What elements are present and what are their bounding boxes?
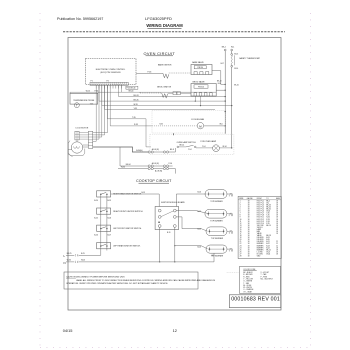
svg-text:Y-35: Y-35 xyxy=(266,213,269,215)
svg-text:12: 12 xyxy=(240,223,242,225)
svg-text:18: 18 xyxy=(276,202,278,204)
wire chart table xyxy=(238,196,281,258)
svg-text:18: 18 xyxy=(248,227,250,229)
right perforation dotted line xyxy=(310,13,312,348)
cooling fan motor xyxy=(197,123,203,129)
svg-text:A-5 B (N): A-5 B (N) xyxy=(155,170,162,173)
svg-text:18: 18 xyxy=(248,231,250,233)
svg-text:SW N.O.: SW N.O. xyxy=(257,227,264,229)
svg-text:B-22: B-22 xyxy=(198,229,202,231)
svg-text:18: 18 xyxy=(276,207,278,209)
wire EOC run y105.6 xyxy=(101,85,103,105)
svg-text:B-22: B-22 xyxy=(266,243,269,245)
svg-text:18: 18 xyxy=(276,213,278,215)
module pin1 mark xyxy=(158,222,159,223)
svg-text:B-24: B-24 xyxy=(94,200,98,202)
svg-text:IGN MOD: IGN MOD xyxy=(257,241,265,243)
wire broil valve pin stub 2 xyxy=(200,96,202,106)
connector row 2 xyxy=(120,147,148,166)
wire module left column to N xyxy=(159,227,161,262)
junction dots on N line xyxy=(159,261,160,262)
svg-text:BROIL VALVE: BROIL VALVE xyxy=(193,80,206,83)
svg-text:18: 18 xyxy=(248,223,250,225)
svg-text:EOC P1-8: EOC P1-8 xyxy=(257,215,264,217)
wire EOC run y92.2 xyxy=(120,85,122,92)
module terminal pair row 1 xyxy=(158,209,161,212)
svg-text:LABEL ALL WIRES PRIOR TO DISCO: LABEL ALL WIRES PRIOR TO DISCONNECTION W… xyxy=(76,279,216,282)
wire EOC pin to lock motor 2 xyxy=(98,85,100,139)
svg-text:28: 28 xyxy=(240,255,242,257)
svg-text:W-35: W-35 xyxy=(134,104,138,106)
svg-text:W-1: W-1 xyxy=(231,47,234,49)
wire module to burner 1 xyxy=(176,194,206,207)
svg-text:BK-34: BK-34 xyxy=(126,164,131,166)
svg-text:B-25: B-25 xyxy=(94,217,98,219)
top burner 3 xyxy=(206,227,227,236)
ignitor switch box 4 xyxy=(97,243,111,249)
svg-text:GY - GRAY: GY - GRAY xyxy=(243,290,252,293)
svg-text:BURNER: BURNER xyxy=(257,243,264,245)
svg-text:18: 18 xyxy=(248,243,250,245)
svg-text:W-6: W-6 xyxy=(220,124,223,126)
svg-text:20: 20 xyxy=(240,239,242,241)
svg-text:P-34: P-34 xyxy=(169,163,173,165)
module terminal pair row 2 xyxy=(158,216,161,219)
caution note box xyxy=(64,272,198,289)
svg-text:18: 18 xyxy=(248,255,250,257)
wire EOC run y109.6 xyxy=(104,85,106,109)
svg-text:BK-16: BK-16 xyxy=(234,85,239,87)
svg-text:B-21: B-21 xyxy=(198,211,202,213)
svg-text:18: 18 xyxy=(248,249,250,251)
cooktop switch right bus wire xyxy=(106,194,108,246)
connector row 3 xyxy=(118,168,148,170)
bottom perforation dotted line xyxy=(40,347,310,349)
svg-text:18: 18 xyxy=(248,247,250,249)
svg-text:L CORD: L CORD xyxy=(257,251,264,253)
svg-text:18: 18 xyxy=(248,207,250,209)
svg-text:18: 18 xyxy=(276,204,278,206)
wire bus drop group from EOC xyxy=(95,85,97,88)
ignitor switch box 2 xyxy=(97,208,111,214)
svg-text:18: 18 xyxy=(248,253,250,255)
svg-text:18: 18 xyxy=(248,245,250,247)
wire cooling fan to bus A xyxy=(204,125,225,127)
svg-text:BK-33: BK-33 xyxy=(134,95,139,97)
svg-text:1: 1 xyxy=(240,200,241,202)
node L1 terminal xyxy=(224,49,226,51)
svg-text:17: 17 xyxy=(240,233,242,235)
burner spark gap 1 xyxy=(227,193,229,195)
svg-text:B-26: B-26 xyxy=(108,217,112,219)
svg-text:26: 26 xyxy=(240,251,242,253)
svg-text:BK-35: BK-35 xyxy=(266,209,270,211)
lamp circuit enclosure dashed box xyxy=(150,134,234,154)
svg-text:COOLING FAN: COOLING FAN xyxy=(191,118,205,121)
svg-text:2: 2 xyxy=(240,202,241,204)
wire EOC pin to lock motor 4 xyxy=(104,85,106,135)
svg-text:18: 18 xyxy=(276,223,278,225)
svg-text:IGN MOD: IGN MOD xyxy=(257,237,265,239)
wire broil valve to bus A xyxy=(216,89,225,91)
wire temp probe to EOC xyxy=(70,91,121,93)
svg-text:BURNER: BURNER xyxy=(257,249,264,251)
svg-text:R-35: R-35 xyxy=(160,124,164,126)
top burner 4 xyxy=(206,245,227,253)
svg-text:COLOR CODE: COLOR CODE xyxy=(243,269,256,271)
bus A wire L1 xyxy=(224,51,226,134)
svg-text:B-19: B-19 xyxy=(266,237,269,239)
broil valve box xyxy=(191,84,216,97)
ignitor switch box 1 xyxy=(97,191,111,197)
EOC electronic oven control box xyxy=(86,59,137,85)
svg-text:W-1: W-1 xyxy=(266,202,269,204)
svg-text:B-16: B-16 xyxy=(218,83,221,85)
svg-text:EOC P1-6: EOC P1-6 xyxy=(257,211,264,213)
svg-text:N: N xyxy=(64,261,66,265)
svg-text:W-16: W-16 xyxy=(234,53,238,55)
svg-text:10: 10 xyxy=(240,219,242,221)
svg-text:EOC P1-1: EOC P1-1 xyxy=(257,200,264,202)
svg-text:04/15: 04/15 xyxy=(63,328,73,333)
svg-text:18: 18 xyxy=(276,217,278,219)
burner spark gap 2 xyxy=(227,213,229,215)
svg-text:18: 18 xyxy=(248,209,250,211)
svg-text:16: 16 xyxy=(240,231,242,233)
svg-text:18: 18 xyxy=(248,211,250,213)
svg-text:EOC P2-4: EOC P2-4 xyxy=(257,223,264,225)
wire EOC pin to lock motor 1 xyxy=(95,85,97,141)
svg-text:18: 18 xyxy=(248,251,250,253)
svg-text:BK-34: BK-34 xyxy=(266,207,270,209)
svg-text:4: 4 xyxy=(240,207,241,209)
svg-text:EOC P1-7: EOC P1-7 xyxy=(257,213,264,215)
svg-text:W-16: W-16 xyxy=(234,68,238,70)
svg-text:P-34: P-34 xyxy=(266,221,269,223)
svg-text:SW COM: SW COM xyxy=(257,225,264,227)
wire bake valve right xyxy=(212,70,221,72)
svg-text:8: 8 xyxy=(240,215,241,217)
connector row 1 xyxy=(148,151,150,153)
wire lock motor to strip xyxy=(83,144,89,146)
module terminal pair row 3 xyxy=(158,225,161,228)
svg-text:ELECTRONIC OVEN CONTROL: ELECTRONIC OVEN CONTROL xyxy=(96,69,126,71)
svg-text:A-5 B (N): A-5 B (N) xyxy=(152,148,159,151)
svg-text:BK-2: BK-2 xyxy=(222,47,226,49)
svg-text:P-33: P-33 xyxy=(266,219,269,221)
svg-text:W-34: W-34 xyxy=(121,167,125,169)
svg-text:Y-14: Y-14 xyxy=(188,149,191,151)
svg-text:TEMPERATURE PROBE: TEMPERATURE PROBE xyxy=(73,99,95,102)
svg-text:EOC P2-3: EOC P2-3 xyxy=(257,221,264,223)
svg-text:B-26: B-26 xyxy=(94,234,98,236)
svg-text:W-34: W-34 xyxy=(266,253,270,255)
svg-text:B-19: B-19 xyxy=(142,192,146,194)
svg-text:OPERATION. VERIFY PROPER OPERA: OPERATION. VERIFY PROPER OPERATION AFTER… xyxy=(66,282,169,285)
wire module right column to N xyxy=(174,227,176,262)
svg-text:(EOC) P/N 316455420: (EOC) P/N 316455420 xyxy=(100,72,121,74)
svg-text:W-15: W-15 xyxy=(86,90,90,92)
svg-text:Y-35: Y-35 xyxy=(134,108,138,110)
svg-text:18: 18 xyxy=(276,227,278,229)
wires lock motor block to strip xyxy=(79,132,88,134)
svg-text:18: 18 xyxy=(248,215,250,217)
svg-text:W-14: W-14 xyxy=(223,146,227,148)
svg-text:18: 18 xyxy=(276,219,278,221)
wire module to burner 4 xyxy=(175,246,208,249)
svg-text:R-35: R-35 xyxy=(134,124,138,126)
svg-text:BAKE IGNITOR: BAKE IGNITOR xyxy=(158,64,172,67)
svg-text:6: 6 xyxy=(240,211,241,213)
svg-text:EOC P1-5: EOC P1-5 xyxy=(257,209,264,211)
svg-text:18: 18 xyxy=(276,225,278,227)
svg-text:EOC P2-1: EOC P2-1 xyxy=(257,217,264,219)
svg-text:W-25: W-25 xyxy=(266,251,270,253)
svg-text:W-25: W-25 xyxy=(81,260,85,262)
svg-text:BK-14: BK-14 xyxy=(266,225,270,227)
svg-text:SAFETY THERMOSTAT: SAFETY THERMOSTAT xyxy=(239,57,260,60)
bake valve box xyxy=(191,65,212,75)
wire label P-35 BK-34 box xyxy=(126,86,138,89)
cooktop switch left bus wire xyxy=(100,194,102,255)
wire EOC run y96.6 xyxy=(118,85,120,96)
svg-text:EOC P2-2: EOC P2-2 xyxy=(257,219,264,221)
svg-text:RIGHT FRONT IGNITOR SWITCH.: RIGHT FRONT IGNITOR SWITCH. xyxy=(113,211,143,213)
svg-text:18: 18 xyxy=(276,215,278,217)
broil inline connector boxes xyxy=(173,92,176,95)
svg-text:18: 18 xyxy=(276,251,278,253)
svg-text:22: 22 xyxy=(240,243,242,245)
svg-text:P/N 316: P/N 316 xyxy=(197,67,203,69)
svg-text:12: 12 xyxy=(173,328,177,333)
svg-text:IGN MOD: IGN MOD xyxy=(257,239,265,241)
wire broil valve pin stub 1 xyxy=(194,96,196,101)
temperature probe box xyxy=(70,93,98,104)
svg-text:BK-8: BK-8 xyxy=(170,149,174,151)
svg-text:T-35: T-35 xyxy=(90,104,93,106)
svg-text:OVEN LAMP SWITCH: OVEN LAMP SWITCH xyxy=(177,141,197,144)
svg-text:21: 21 xyxy=(240,241,242,243)
wire EOC to lamp switch run xyxy=(106,85,108,119)
svg-text:LEFT REAR IGNITOR SWITCH.: LEFT REAR IGNITOR SWITCH. xyxy=(113,244,141,247)
bus B wire neutral upper xyxy=(231,51,233,54)
color code legend box xyxy=(240,266,281,293)
svg-text:N CORD: N CORD xyxy=(257,253,264,255)
svg-text:B-21: B-21 xyxy=(266,241,269,243)
svg-text:WIRING DIAGRAM: WIRING DIAGRAM xyxy=(146,23,183,28)
svg-text:22: 22 xyxy=(276,245,278,247)
wire module to burner 3 xyxy=(176,217,207,231)
wire EOC run y101.1 xyxy=(98,85,100,101)
left perforation dotted line xyxy=(39,13,41,348)
svg-text:B-19: B-19 xyxy=(167,232,170,234)
svg-text:18: 18 xyxy=(276,200,278,202)
svg-text:T-35: T-35 xyxy=(132,117,136,119)
burner spark gap 3 xyxy=(227,230,229,232)
svg-text:W-34: W-34 xyxy=(67,260,71,262)
bake ignitor element symbol xyxy=(163,73,169,78)
svg-text:22: 22 xyxy=(276,243,278,245)
svg-text:19: 19 xyxy=(240,237,242,239)
ignitor switch box 3 xyxy=(97,225,111,231)
svg-text:B-20: B-20 xyxy=(266,239,269,241)
svg-text:14: 14 xyxy=(240,227,242,229)
svg-text:W-35: W-35 xyxy=(266,211,270,213)
svg-text:18: 18 xyxy=(276,249,278,251)
svg-text:BK-34: BK-34 xyxy=(129,90,134,92)
svg-text:18: 18 xyxy=(248,221,250,223)
wire stub to legend dashed xyxy=(227,272,239,274)
wire bake ignitor to bake valve dashed xyxy=(169,72,191,74)
svg-text:BK-33: BK-33 xyxy=(266,204,270,206)
svg-text:A-5 B (N): A-5 B (N) xyxy=(152,162,159,165)
svg-text:00010683 REV 001: 00010683 REV 001 xyxy=(231,296,280,302)
svg-text:BURNER: BURNER xyxy=(257,245,264,247)
svg-text:18: 18 xyxy=(248,204,250,206)
wire EOC to bake ignitor P-33 xyxy=(136,72,163,74)
svg-text:B-25: B-25 xyxy=(81,253,85,255)
svg-text:25: 25 xyxy=(240,249,242,251)
oven lamp symbol xyxy=(196,147,213,149)
svg-text:7: 7 xyxy=(240,213,241,215)
lock motor connector strip xyxy=(88,131,92,148)
svg-text:18: 18 xyxy=(248,235,250,237)
svg-text:BK-25: BK-25 xyxy=(266,249,270,251)
svg-text:18: 18 xyxy=(276,233,278,235)
svg-text:3: 3 xyxy=(240,204,241,206)
svg-text:EOC P1-3: EOC P1-3 xyxy=(257,204,264,206)
svg-text:18: 18 xyxy=(276,221,278,223)
svg-text:18: 18 xyxy=(276,229,278,231)
svg-text:LOCK MOTOR: LOCK MOTOR xyxy=(76,128,89,130)
svg-text:B-25: B-25 xyxy=(108,200,112,202)
svg-text:B-34(H): B-34(H) xyxy=(136,150,143,152)
burner spark gap 4 xyxy=(227,248,229,250)
part number box 00010683 REV 001 xyxy=(229,295,280,308)
wire N line to burners xyxy=(79,261,215,263)
wire broil ignitor to broil valve xyxy=(168,92,173,94)
svg-text:TOP BURNER: TOP BURNER xyxy=(210,221,223,223)
diagram outer frame xyxy=(68,38,281,311)
svg-text:9: 9 xyxy=(240,217,241,219)
svg-text:18: 18 xyxy=(248,237,250,239)
svg-text:LFG63025PFD: LFG63025PFD xyxy=(145,16,172,21)
svg-text:P-35 BK-34: P-35 BK-34 xyxy=(127,88,136,90)
svg-text:18: 18 xyxy=(276,253,278,255)
svg-text:BK-35: BK-35 xyxy=(134,99,139,101)
bus B wire neutral lower xyxy=(231,67,233,148)
lock motor body xyxy=(71,142,82,153)
svg-text:Y-14: Y-14 xyxy=(202,146,205,148)
svg-text:27: 27 xyxy=(240,253,242,255)
svg-text:Publication No. 5995662197: Publication No. 5995662197 xyxy=(57,17,103,21)
svg-text:BK-25: BK-25 xyxy=(67,253,72,255)
top perforation dashed line xyxy=(63,31,285,33)
svg-text:EOC P1-2: EOC P1-2 xyxy=(257,202,264,204)
lock motor connector block xyxy=(75,131,79,140)
svg-text:18: 18 xyxy=(276,209,278,211)
svg-text:BK-18: BK-18 xyxy=(266,235,270,237)
svg-text:18: 18 xyxy=(248,202,250,204)
svg-text:5: 5 xyxy=(240,209,241,211)
oven lamp switch symbol xyxy=(177,146,179,148)
svg-text:R-35: R-35 xyxy=(266,217,269,219)
svg-text:18: 18 xyxy=(248,200,250,202)
svg-text:B-27: B-27 xyxy=(108,234,112,236)
wire heavy run lock motor to connectors xyxy=(83,146,118,148)
svg-text:B-23: B-23 xyxy=(198,247,202,249)
safety thermostat symbol xyxy=(231,54,233,56)
svg-text:B-17: B-17 xyxy=(221,63,224,65)
svg-text:OVEN CIRCUIT: OVEN CIRCUIT xyxy=(144,51,176,56)
svg-text:18: 18 xyxy=(248,217,250,219)
svg-text:BK-2: BK-2 xyxy=(266,200,270,202)
wire module to burner 2 xyxy=(176,211,207,214)
top burner 2 xyxy=(205,209,227,218)
svg-text:TOP BURNER: TOP BURNER xyxy=(211,238,224,240)
wire to broil ignitor dashed xyxy=(140,92,162,94)
svg-text:IGNITOR MODULE BOARD: IGNITOR MODULE BOARD xyxy=(161,201,185,204)
svg-text:BK-14: BK-14 xyxy=(180,145,185,147)
svg-text:BK-13: BK-13 xyxy=(217,81,222,83)
svg-text:13: 13 xyxy=(240,225,242,227)
svg-text:EOC P1-4: EOC P1-4 xyxy=(257,207,264,209)
svg-text:18: 18 xyxy=(248,225,250,227)
svg-text:18: 18 xyxy=(248,219,250,221)
svg-text:BAKE VALVE: BAKE VALVE xyxy=(192,61,204,64)
svg-text:P/N 316: P/N 316 xyxy=(198,86,204,88)
module internal wire xyxy=(161,211,173,217)
svg-text:2.5W OVEN LAMP: 2.5W OVEN LAMP xyxy=(200,140,217,143)
svg-text:MC - MULTIPLE: MC - MULTIPLE xyxy=(261,278,274,280)
wire oven lamp to bus B xyxy=(219,147,231,149)
svg-text:T-35: T-35 xyxy=(266,215,269,217)
wire switch to ignitor module B-19 xyxy=(111,193,160,195)
node N terminal xyxy=(231,49,233,51)
wire EOC pin to lock motor 3 xyxy=(101,85,103,137)
svg-text:18: 18 xyxy=(240,235,242,237)
svg-text:11: 11 xyxy=(240,221,242,223)
svg-text:15: 15 xyxy=(240,229,242,231)
temperature probe sensor symbol xyxy=(74,103,79,108)
svg-text:CAUTION:DISCONNECT POWER BEFOR: CAUTION:DISCONNECT POWER BEFORE SERVICIN… xyxy=(66,276,125,279)
svg-text:LEFT FRONT IGNITOR SWITCH.: LEFT FRONT IGNITOR SWITCH. xyxy=(113,228,142,230)
svg-text:TOP BURNER: TOP BURNER xyxy=(210,201,223,203)
svg-text:24: 24 xyxy=(240,247,242,249)
wire EOC to cooling fan run xyxy=(109,85,111,126)
svg-text:18: 18 xyxy=(248,229,250,231)
svg-text:18: 18 xyxy=(248,239,250,241)
wire EOC pin to lock motor 5 xyxy=(106,85,108,132)
svg-text:18: 18 xyxy=(248,241,250,243)
lock motor mount outline xyxy=(68,141,85,156)
svg-text:COOKTOP CIRCUIT: COOKTOP CIRCUIT xyxy=(136,179,172,183)
svg-text:BROIL IGNITOR: BROIL IGNITOR xyxy=(157,87,172,89)
svg-text:B-24: B-24 xyxy=(266,247,269,249)
svg-text:18: 18 xyxy=(276,231,278,233)
svg-text:B-23: B-23 xyxy=(266,245,269,247)
broil ignitor element symbol xyxy=(162,93,168,98)
svg-text:18: 18 xyxy=(276,247,278,249)
svg-text:BURNER: BURNER xyxy=(257,247,264,249)
svg-text:22: 22 xyxy=(276,241,278,243)
chassis enclosure dashed box xyxy=(152,111,226,133)
svg-text:B-20: B-20 xyxy=(198,191,202,193)
top burner 1 xyxy=(205,190,227,199)
svg-text:P-35: P-35 xyxy=(266,223,269,225)
svg-text:18: 18 xyxy=(248,213,250,215)
svg-text:18: 18 xyxy=(248,233,250,235)
